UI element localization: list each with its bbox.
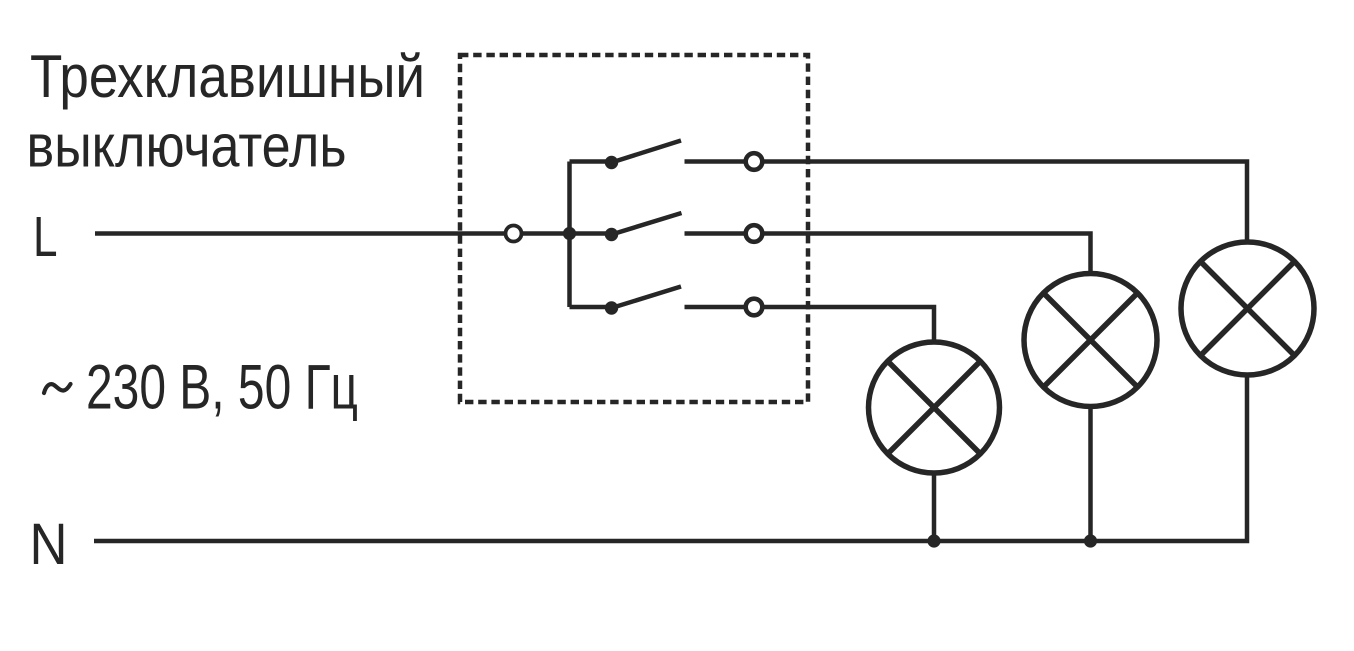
switch 3 lever (612, 287, 682, 309)
wire: switch 2 output to lamp 2 (685, 234, 1091, 277)
wire: vertical bus inside switch box (567, 162, 572, 308)
junction dot lamp2/N (1084, 534, 1097, 547)
svg-text:Трехклавишный: Трехклавишный (30, 43, 425, 110)
wire: L line from label to junction (95, 231, 570, 236)
output terminal switch 1 (746, 153, 763, 170)
wire: stub to switch 1 hinge (570, 159, 612, 164)
junction dot lamp1/N (927, 534, 940, 547)
svg-text:L: L (33, 205, 58, 269)
lamp 1 (circle with X) (869, 342, 1000, 473)
switch 2 hinge dot (605, 228, 618, 241)
input terminal (open circle) on L (506, 226, 522, 242)
switch 3 hinge dot (605, 301, 618, 314)
switch 1 lever (612, 141, 682, 163)
dashed enclosure: three-gang switch box (460, 55, 808, 402)
wire: stub to switch 3 hinge (570, 305, 612, 310)
svg-text:230 В, 50 Гц: 230 В, 50 Гц (86, 353, 358, 423)
wire: N line and riser to lamp 3 (94, 373, 1247, 541)
wire: stub to switch 2 hinge (570, 231, 612, 236)
wire: switch 3 output to lamp 1 (685, 307, 935, 343)
lamp 3 (circle with X) (1181, 242, 1314, 375)
lamp 2 (circle with X) (1024, 274, 1157, 407)
output terminal switch 3 (746, 299, 763, 316)
output terminal switch 2 (746, 225, 763, 242)
svg-text:N: N (30, 512, 68, 577)
junction dot at L bus (563, 227, 576, 240)
switch 1 hinge dot (605, 156, 618, 169)
wire: lamp 2 bottom to N (1088, 404, 1093, 541)
wire: switch 1 output to lamp 3 (685, 162, 1248, 245)
label: voltage rating tilde (44, 384, 71, 393)
wire: lamp 1 bottom to N (932, 472, 937, 541)
svg-text:выключатель: выключатель (27, 113, 347, 180)
switch 2 lever (612, 213, 682, 235)
